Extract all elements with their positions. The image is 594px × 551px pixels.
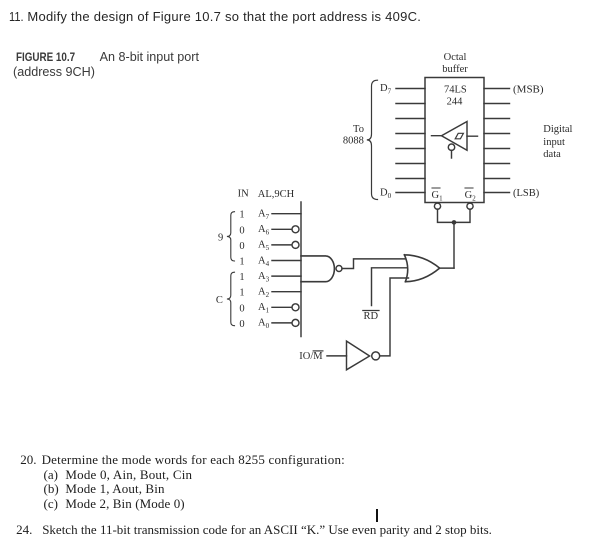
svg-text:RD: RD	[364, 311, 379, 322]
svg-text:Octal: Octal	[444, 52, 467, 63]
svg-text:C: C	[216, 295, 223, 306]
svg-text:IO/M: IO/M	[299, 351, 323, 362]
svg-text:G2: G2	[465, 190, 477, 203]
svg-text:A0: A0	[258, 318, 270, 331]
svg-text:AL,9CH: AL,9CH	[258, 189, 295, 200]
svg-text:(LSB): (LSB)	[513, 188, 540, 199]
svg-text:(MSB): (MSB)	[513, 84, 544, 96]
svg-text:8088: 8088	[343, 136, 364, 147]
svg-text:1: 1	[239, 288, 244, 299]
svg-text:0: 0	[239, 241, 244, 252]
svg-text:A2: A2	[258, 287, 270, 300]
svg-text:1: 1	[239, 272, 244, 283]
svg-text:A3: A3	[258, 271, 270, 284]
svg-text:1: 1	[239, 257, 244, 268]
svg-text:1: 1	[239, 210, 244, 221]
svg-text:A1: A1	[258, 302, 270, 315]
svg-text:D0: D0	[380, 187, 392, 200]
svg-text:A4: A4	[258, 255, 270, 268]
svg-text:0: 0	[239, 319, 244, 330]
svg-text:74LS: 74LS	[444, 85, 467, 96]
svg-text:input: input	[543, 137, 565, 148]
svg-text:A5: A5	[258, 240, 270, 253]
svg-text:244: 244	[447, 97, 464, 108]
svg-text:buffer: buffer	[442, 64, 468, 75]
svg-text:To: To	[353, 124, 364, 135]
svg-text:A7: A7	[258, 209, 270, 222]
svg-text:0: 0	[239, 225, 244, 236]
svg-text:IN: IN	[238, 188, 249, 199]
svg-text:9: 9	[218, 232, 223, 243]
svg-text:0: 0	[239, 303, 244, 314]
svg-text:data: data	[543, 149, 561, 160]
svg-text:A6: A6	[258, 224, 270, 237]
svg-text:G1: G1	[432, 190, 444, 203]
svg-text:Digital: Digital	[543, 124, 572, 135]
svg-text:D7: D7	[380, 83, 392, 96]
